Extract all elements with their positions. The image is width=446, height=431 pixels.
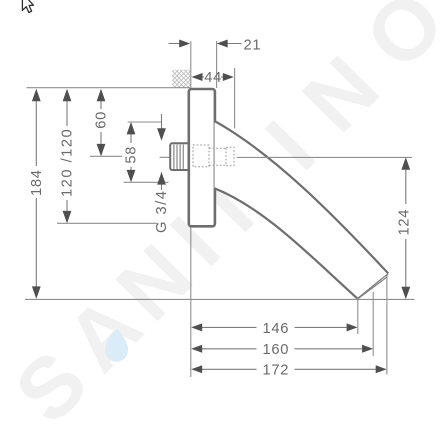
svg-text:44: 44 [204,70,222,86]
svg-text:58: 58 [124,146,140,164]
svg-text:160: 160 [263,342,290,358]
svg-text:G 3/4: G 3/4 [154,190,170,233]
svg-text:21: 21 [244,37,262,53]
svg-text:60: 60 [94,111,110,129]
svg-text:172: 172 [263,363,290,379]
svg-text:184: 184 [29,169,45,196]
svg-text:124: 124 [396,209,412,236]
svg-text:146: 146 [263,321,290,337]
svg-text:120 /120: 120 /120 [60,128,76,197]
